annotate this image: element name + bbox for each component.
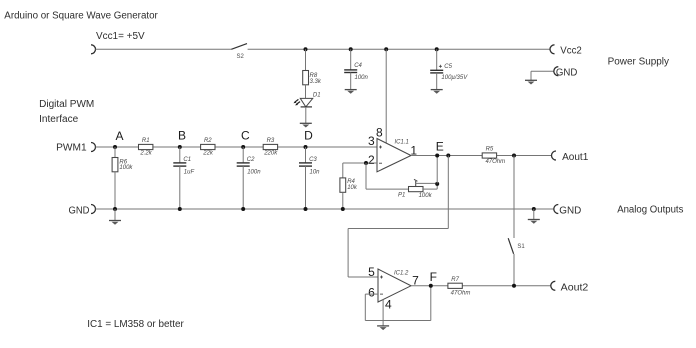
svg-text:R5: R5 xyxy=(486,146,494,152)
node A xyxy=(113,129,124,149)
pin number 5 xyxy=(368,265,375,279)
svg-text:3.3k: 3.3k xyxy=(310,79,322,85)
junction dot (GND bus / C3) xyxy=(304,207,308,211)
wire pin 4 to ground xyxy=(382,300,384,326)
wire pin 2 input xyxy=(343,162,377,164)
ground (C5) xyxy=(431,90,443,94)
svg-text:100µ/35V: 100µ/35V xyxy=(441,75,468,81)
ground (power supply) xyxy=(525,80,537,84)
wire output IC1.1 to Aout1 xyxy=(411,155,552,157)
svg-text:8: 8 xyxy=(376,125,383,139)
svg-text:6: 6 xyxy=(368,286,375,300)
svg-text:D1: D1 xyxy=(313,93,321,99)
svg-text:2: 2 xyxy=(368,153,375,167)
svg-text:7: 7 xyxy=(412,273,419,287)
svg-text:IC1.1: IC1.1 xyxy=(395,139,409,145)
svg-text:10n: 10n xyxy=(310,169,321,175)
pin number 6 xyxy=(368,286,375,300)
note IC1 = LM358 or better xyxy=(87,319,184,330)
resistor R3 220k xyxy=(263,138,278,157)
svg-text:Interface: Interface xyxy=(39,114,79,125)
svg-text:R2: R2 xyxy=(204,138,212,144)
svg-text:220k: 220k xyxy=(263,151,278,157)
wire pin 6 feedback loop xyxy=(365,286,431,321)
junction dot (GND bus / R4) xyxy=(341,207,345,211)
node dot (top bus / R8 branch) xyxy=(304,47,308,51)
connector Aout2 xyxy=(551,281,589,293)
svg-text:3: 3 xyxy=(368,134,375,148)
wire PWM line (PWM1 to pin 3) xyxy=(96,146,378,148)
svg-text:1uF: 1uF xyxy=(184,169,195,175)
svg-text:A: A xyxy=(115,129,123,143)
svg-text:100n: 100n xyxy=(247,169,261,175)
ground (C4) xyxy=(345,90,357,94)
svg-text:GND: GND xyxy=(69,205,90,216)
node E xyxy=(436,140,444,154)
svg-text:100n: 100n xyxy=(355,75,369,81)
svg-text:Analog Outputs: Analog Outputs xyxy=(617,204,683,215)
svg-text:100k: 100k xyxy=(119,165,133,171)
svg-text:PWM1: PWM1 xyxy=(56,142,87,153)
svg-text:Aout1: Aout1 xyxy=(562,152,589,163)
wire top bus left (Vcc1 to S2) xyxy=(96,48,232,50)
junction dot (Aout1 / S1) xyxy=(512,154,516,158)
capacitor C3 10n xyxy=(299,147,320,209)
node D xyxy=(304,129,314,150)
svg-text:Vcc2: Vcc2 xyxy=(560,46,582,57)
ground (GND bus, below node A) xyxy=(109,209,121,225)
svg-text:S1: S1 xyxy=(517,244,525,250)
svg-text:C5: C5 xyxy=(444,64,452,70)
connector PWM1 xyxy=(91,143,96,152)
op-amp IC1.1 xyxy=(377,139,411,172)
resistor R6 100k xyxy=(112,147,133,209)
capacitor C5 100u/35V xyxy=(430,49,468,89)
label Vcc1= +5V xyxy=(96,31,145,42)
pin number 3 xyxy=(368,134,375,148)
svg-text:Arduino or Square Wave Generat: Arduino or Square Wave Generator xyxy=(4,11,158,22)
junction dot (GND bus / R6) xyxy=(113,207,117,211)
svg-text:Aout2: Aout2 xyxy=(561,282,589,293)
node C xyxy=(241,129,250,150)
pin number 2 xyxy=(368,153,375,167)
junction dot (GND bus / right ground) xyxy=(532,207,536,211)
switch S2 xyxy=(231,44,247,60)
svg-text:D: D xyxy=(304,129,313,143)
capacitor C2 100n xyxy=(237,147,262,209)
connector GND (left) xyxy=(91,205,96,214)
pin number 1 xyxy=(410,144,417,158)
label PWM1 xyxy=(56,142,87,153)
svg-text:IC1 = LM358 or better: IC1 = LM358 or better xyxy=(87,319,184,330)
capacitor C4 100n xyxy=(344,49,368,89)
label Power Supply xyxy=(608,57,669,68)
svg-text:Vcc1= +5V: Vcc1= +5V xyxy=(96,31,145,42)
connector Vcc2 xyxy=(550,45,582,57)
wire E branch down to IC1.2 pin 5 xyxy=(348,156,448,278)
pin number 8 xyxy=(376,125,383,139)
label GND (left) xyxy=(69,205,90,216)
resistor R4 10k xyxy=(340,163,358,209)
pin number 7 xyxy=(412,273,419,287)
label Analog Outputs xyxy=(617,204,683,215)
resistor R8 3.3k xyxy=(303,49,322,98)
capacitor C1 1uF xyxy=(173,147,194,209)
svg-text:S2: S2 xyxy=(237,54,245,60)
node F xyxy=(430,270,437,284)
junction dot (Aout2 / S1) xyxy=(512,284,516,288)
label Digital PWM Interface xyxy=(39,99,94,125)
pin number 4 xyxy=(385,297,392,311)
svg-text:10k: 10k xyxy=(347,185,358,191)
node dot (top bus / pin8 wire) xyxy=(384,47,388,51)
svg-text:100k: 100k xyxy=(419,193,433,199)
svg-text:E: E xyxy=(436,140,444,154)
node dot (top bus / C5) xyxy=(435,47,439,51)
node dot (top bus / C4) xyxy=(349,47,353,51)
svg-text:Power Supply: Power Supply xyxy=(608,57,669,68)
svg-text:R3: R3 xyxy=(267,138,275,144)
title text xyxy=(4,11,158,22)
svg-text:4: 4 xyxy=(385,297,392,311)
node B xyxy=(178,129,186,150)
junction dot (output 2 / feedback) xyxy=(429,284,433,288)
trimmer P1 100k xyxy=(398,179,437,199)
wire output IC1.2 to Aout2 xyxy=(411,285,551,287)
svg-text:IC1.2: IC1.2 xyxy=(394,271,409,277)
svg-text:R1: R1 xyxy=(142,138,150,144)
ground (LED D1) xyxy=(300,123,312,127)
resistor R2 22k xyxy=(201,138,215,157)
svg-text:47Ohm: 47Ohm xyxy=(485,159,505,165)
connector Vcc1 xyxy=(91,45,96,54)
junction dot (GND bus / C2) xyxy=(241,207,245,211)
ground (GND bus right) xyxy=(528,209,540,224)
ground (IC1.2 pin 4) xyxy=(377,326,389,330)
junction dot (GND bus / C1) xyxy=(178,207,182,211)
junction dot (P1 wiper) xyxy=(435,182,439,186)
connector Aout1 xyxy=(552,151,589,163)
wire GND bus xyxy=(96,208,554,210)
wire P1 riser to output xyxy=(436,156,438,184)
resistor R7 47Ohm xyxy=(448,277,470,296)
junction dot (output / P1) xyxy=(435,154,439,158)
svg-text:P1: P1 xyxy=(398,193,405,199)
svg-text:22k: 22k xyxy=(202,151,214,157)
svg-text:C4: C4 xyxy=(354,63,362,69)
junction dot (output / E branch) xyxy=(446,154,450,158)
svg-text:47Ohm: 47Ohm xyxy=(451,291,471,297)
junction dot (pin 2 / feedback) xyxy=(364,161,368,165)
resistor R5 47Ohm xyxy=(482,146,505,165)
svg-text:C2: C2 xyxy=(247,157,255,163)
svg-text:R7: R7 xyxy=(451,277,459,283)
connector GND (analog) xyxy=(554,205,582,217)
svg-text:5: 5 xyxy=(368,265,375,279)
wire GND power stub xyxy=(531,71,554,80)
svg-text:C: C xyxy=(241,129,250,143)
LED D1 xyxy=(294,93,321,107)
wire pin 8 (Vcc to IC1.1) xyxy=(385,49,387,143)
svg-text:GND: GND xyxy=(556,68,578,79)
wire LED to ground xyxy=(305,107,307,123)
svg-text:F: F xyxy=(430,270,437,284)
resistor R1 2.2k xyxy=(139,138,153,157)
svg-text:2.2k: 2.2k xyxy=(139,151,152,157)
svg-text:GND: GND xyxy=(559,205,581,216)
svg-text:C3: C3 xyxy=(309,157,317,163)
svg-text:Digital PWM: Digital PWM xyxy=(39,99,94,110)
wire feedback to P1 xyxy=(366,163,409,189)
op-amp IC1.2 xyxy=(378,269,411,302)
wire top bus right (S2 to Vcc2) xyxy=(248,48,550,50)
svg-text:C1: C1 xyxy=(183,157,191,163)
svg-text:B: B xyxy=(178,129,186,143)
connector GND (power) xyxy=(554,67,578,79)
switch S1 xyxy=(508,156,525,286)
